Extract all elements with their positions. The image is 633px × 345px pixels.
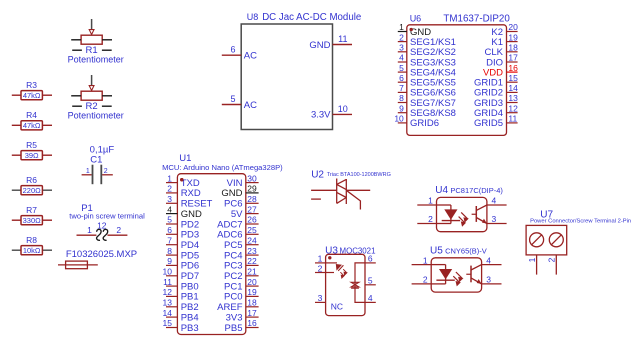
- optocoupler U5 CNY65(B)-V: [412, 245, 502, 292]
- svg-text:5V: 5V: [231, 209, 243, 220]
- svg-text:6: 6: [368, 254, 373, 264]
- svg-text:9: 9: [399, 103, 404, 113]
- resistor R4: [12, 110, 52, 130]
- svg-text:RXD: RXD: [181, 188, 201, 199]
- U1 pin 11 PB0: [166, 285, 177, 287]
- P1 screw hook 2: [103, 229, 108, 240]
- svg-text:R5: R5: [26, 140, 37, 150]
- U2 MT1 lead wire: [346, 189, 370, 191]
- U3 pin 6: [365, 262, 376, 264]
- U3 pin 3: [315, 301, 326, 303]
- svg-text:26: 26: [247, 215, 257, 225]
- U1 pin 9 PD6: [166, 264, 177, 266]
- svg-text:PC3: PC3: [224, 261, 242, 272]
- svg-text:29: 29: [247, 184, 257, 194]
- U6 pin 20 K2: [507, 31, 518, 33]
- U6 pin 13 GRID3: [507, 102, 518, 104]
- svg-text:PD3: PD3: [181, 230, 199, 241]
- svg-text:AC: AC: [244, 51, 257, 62]
- svg-text:U6: U6: [410, 14, 422, 24]
- svg-text:23: 23: [247, 246, 257, 256]
- svg-text:GND: GND: [309, 40, 330, 51]
- U6 pin 9 SEG8/KS8: [398, 112, 407, 114]
- U8 pin 5 AC: [222, 104, 241, 106]
- svg-text:1: 1: [86, 168, 90, 175]
- svg-text:ADC6: ADC6: [217, 230, 242, 241]
- U6 pin 5 SEG4/KS4: [398, 71, 407, 73]
- svg-text:R8: R8: [26, 235, 37, 245]
- U1 pin 21 PC2: [246, 275, 259, 277]
- svg-text:2: 2: [547, 257, 557, 262]
- svg-text:MCU: Arduino Nano (ATmega328P): MCU: Arduino Nano (ATmega328P): [162, 163, 283, 172]
- svg-text:28: 28: [247, 194, 257, 204]
- U2 upper triangle: [337, 179, 347, 184]
- svg-text:220Ω: 220Ω: [23, 186, 42, 195]
- svg-text:14: 14: [508, 83, 518, 93]
- U1 pin 23 PC4: [246, 254, 259, 256]
- U1 pin 27 5V: [246, 213, 259, 215]
- U1 pin 1 dot overlay: [180, 178, 183, 181]
- svg-text:3: 3: [167, 194, 172, 204]
- U1 pin 24 PC5: [246, 244, 259, 246]
- U1 pin 26 ADC7: [246, 223, 259, 225]
- U1 pin 15 PB3: [166, 327, 177, 329]
- svg-text:11: 11: [163, 277, 172, 287]
- svg-text:Triac BTA100-1200BWRG: Triac BTA100-1200BWRG: [327, 172, 391, 178]
- svg-text:20: 20: [247, 277, 257, 287]
- resistor R6: [12, 175, 52, 195]
- U1 pin 10 PD7: [166, 275, 177, 277]
- svg-text:10: 10: [163, 267, 173, 277]
- U4 internal LED: [437, 204, 451, 206]
- svg-text:12: 12: [508, 103, 518, 113]
- U1 pin 7 PD4: [166, 244, 177, 246]
- svg-text:15: 15: [508, 73, 518, 83]
- U1 pin 25 ADC6: [246, 233, 259, 235]
- svg-text:DC Jac AC-DC Module: DC Jac AC-DC Module: [262, 12, 361, 23]
- U6 pin 16 VDD: [507, 71, 518, 73]
- svg-text:330Ω: 330Ω: [23, 216, 42, 225]
- potentiometer R2: [68, 75, 124, 121]
- svg-text:8: 8: [167, 246, 172, 256]
- U6 pin 6 SEG5/KS5: [398, 81, 407, 83]
- svg-text:2: 2: [104, 168, 108, 175]
- connector P1 two-pin screw terminal: [69, 203, 145, 240]
- svg-text:PD4: PD4: [181, 240, 199, 251]
- U8 pin 10 3.3V: [333, 113, 353, 115]
- svg-text:25: 25: [247, 225, 257, 235]
- U5 internal LED: [431, 264, 445, 266]
- svg-text:GND: GND: [181, 209, 202, 220]
- svg-text:16: 16: [247, 318, 257, 328]
- U1 pin 30 VIN: [246, 182, 259, 184]
- svg-text:1: 1: [318, 254, 323, 264]
- U3 pin 5: [365, 284, 376, 286]
- svg-text:6: 6: [230, 45, 235, 55]
- U1 pin 18 AREF: [246, 306, 259, 308]
- svg-text:47kΩ: 47kΩ: [23, 91, 41, 100]
- U2 left bar: [336, 179, 338, 204]
- U5 pin 4: [482, 264, 502, 266]
- resistor R8: [12, 235, 52, 255]
- svg-text:5: 5: [399, 63, 404, 73]
- svg-text:U8: U8: [247, 12, 259, 22]
- resistor R5: [12, 140, 52, 160]
- U2 stub wire: [311, 198, 321, 200]
- svg-text:4: 4: [486, 255, 491, 265]
- svg-text:Potentiometer: Potentiometer: [68, 111, 124, 121]
- U6 pin 7 SEG6/KS6: [398, 91, 407, 93]
- U1 pin 3 RESET: [166, 202, 177, 204]
- svg-text:13: 13: [508, 93, 518, 103]
- P1 right wire: [108, 234, 128, 236]
- U6 pin 12 GRID4: [507, 112, 518, 114]
- svg-text:8: 8: [399, 93, 404, 103]
- svg-text:3: 3: [399, 43, 404, 53]
- U6 pin 14 GRID2: [507, 91, 518, 93]
- svg-text:18: 18: [247, 298, 257, 308]
- svg-text:PB1: PB1: [181, 292, 199, 303]
- svg-text:11: 11: [338, 34, 347, 44]
- svg-text:TM1637-DIP20: TM1637-DIP20: [443, 14, 510, 25]
- svg-text:6: 6: [167, 225, 172, 235]
- U7 pin 2 lead: [555, 255, 557, 275]
- svg-text:18: 18: [508, 43, 518, 53]
- svg-text:GRID5: GRID5: [474, 118, 503, 129]
- U6 pin 10 GRID6: [398, 122, 407, 124]
- svg-text:15: 15: [163, 318, 173, 328]
- svg-text:PC817C(DIP-4): PC817C(DIP-4): [450, 186, 503, 195]
- U4 light arrows: [461, 212, 467, 221]
- U3 internal diac: [351, 282, 359, 287]
- U1 pin 28 PC6: [246, 202, 259, 204]
- svg-text:R3: R3: [26, 80, 37, 90]
- svg-text:4: 4: [492, 196, 497, 206]
- resistor R3: [12, 80, 52, 100]
- U1 pin 13 PB2: [166, 306, 177, 308]
- U4 pin 4: [487, 204, 507, 206]
- svg-text:3: 3: [492, 214, 497, 224]
- U6 pin 11 GRID5: [507, 122, 518, 124]
- svg-text:U2: U2: [311, 169, 324, 180]
- U1 pin 5 PD2: [166, 223, 177, 225]
- U1 pin 4 GND: [166, 213, 177, 215]
- svg-text:7: 7: [167, 235, 172, 245]
- fuse F1 F10326025.MXP: [58, 249, 137, 269]
- svg-text:21: 21: [247, 267, 257, 277]
- svg-text:two-pin screw terminal: two-pin screw terminal: [69, 211, 145, 220]
- U6 pin 4 SEG3/KS3: [398, 61, 407, 63]
- svg-text:9: 9: [167, 256, 172, 266]
- triac U2 BTA100-1200BWRG: [311, 169, 391, 209]
- C1 plates: [92, 165, 94, 185]
- svg-text:1: 1: [87, 225, 92, 235]
- resistor R7: [12, 205, 52, 225]
- svg-text:16: 16: [508, 63, 518, 73]
- svg-text:10: 10: [338, 104, 348, 114]
- U4 phototransistor: [475, 206, 477, 222]
- U7 screw 2: [549, 233, 563, 247]
- U6 pin 1 dot: [410, 28, 413, 31]
- svg-text:R4: R4: [26, 110, 37, 120]
- svg-text:27: 27: [247, 204, 257, 214]
- svg-text:39Ω: 39Ω: [25, 151, 39, 160]
- U5 light arrows: [456, 272, 462, 281]
- U1 pin 22 PC3: [246, 264, 259, 266]
- svg-text:1: 1: [527, 257, 537, 262]
- svg-text:4: 4: [167, 204, 172, 214]
- U5 phototransistor: [470, 266, 472, 283]
- svg-text:4: 4: [399, 53, 404, 63]
- U8 pin 6 AC: [222, 54, 241, 56]
- U4 pin 3: [487, 223, 507, 225]
- U6 pin 3 SEG2/KS2: [398, 51, 407, 53]
- svg-text:20: 20: [508, 22, 518, 32]
- U7 pin 1 lead: [536, 255, 538, 275]
- svg-text:3: 3: [486, 275, 491, 285]
- U6 pin 15 GRID1: [507, 81, 518, 83]
- U7 screw 1: [530, 233, 544, 247]
- IC U1 MCU Arduino Nano (ATmega328P): [162, 153, 283, 335]
- svg-text:7: 7: [399, 83, 404, 93]
- U8 pin 11 GND: [333, 44, 353, 46]
- svg-text:R6: R6: [26, 175, 37, 185]
- U1 pin 29 GND: [246, 192, 259, 194]
- U6 pin 19 K1: [507, 41, 518, 43]
- U5 pin 1: [412, 264, 432, 266]
- U3 pin 4: [365, 301, 376, 303]
- fuse lead wire: [58, 264, 98, 266]
- U1 pin 1 dot: [180, 178, 183, 181]
- svg-text:F10326025.MXP: F10326025.MXP: [66, 249, 137, 260]
- svg-text:17: 17: [508, 53, 518, 63]
- svg-text:NC: NC: [331, 302, 343, 312]
- U2 lower triangle: [337, 192, 347, 197]
- U6 pin 1 dot overlay: [410, 28, 413, 31]
- svg-text:22: 22: [247, 256, 257, 266]
- svg-text:Power Connector/Screw Terminal: Power Connector/Screw Terminal 2-Pin: [530, 219, 631, 225]
- P1 left wire: [77, 234, 97, 236]
- svg-text:2: 2: [423, 275, 428, 285]
- svg-text:19: 19: [247, 287, 257, 297]
- U3 internal LED: [326, 262, 337, 264]
- U2 gate lead: [346, 190, 360, 209]
- U4 pin 2: [417, 223, 436, 225]
- U1 pin 19 PC0: [246, 295, 259, 297]
- svg-text:1: 1: [423, 255, 428, 265]
- U3 LED arrows: [343, 269, 347, 275]
- U1 pin 16 PB5: [246, 327, 259, 329]
- U3 internal triac bracket: [355, 263, 365, 303]
- svg-text:1: 1: [399, 22, 404, 32]
- U1 pin 20 PC1: [246, 285, 259, 287]
- U3 pin 1: [315, 262, 326, 264]
- svg-text:U5: U5: [430, 245, 443, 256]
- svg-text:5: 5: [368, 276, 373, 286]
- U6 pin 1 GND: [398, 31, 407, 33]
- U1 pin 17 3V3: [246, 316, 259, 318]
- svg-text:3.3V: 3.3V: [311, 110, 331, 121]
- svg-text:PC0: PC0: [224, 292, 242, 303]
- U1 pin 12 PB1: [166, 295, 177, 297]
- svg-text:14: 14: [163, 308, 173, 318]
- U6 pin 18 CLK: [507, 51, 518, 53]
- svg-text:3V3: 3V3: [226, 312, 243, 323]
- P1 screw hook 1: [97, 229, 102, 240]
- U6 pin 2 SEG1/KS1: [398, 41, 407, 43]
- svg-text:17: 17: [247, 308, 257, 318]
- U2 MT2 lead wire: [311, 189, 337, 191]
- svg-text:30: 30: [247, 173, 257, 183]
- U5 pin 2: [412, 283, 432, 285]
- C1 left lead wire: [82, 174, 92, 176]
- svg-text:2: 2: [428, 214, 433, 224]
- svg-text:5: 5: [230, 94, 235, 104]
- optocoupler U3 MOC3021: [315, 246, 376, 316]
- U6 pin 17 DIO: [507, 61, 518, 63]
- svg-text:10: 10: [394, 114, 404, 124]
- svg-text:PB4: PB4: [181, 312, 199, 323]
- svg-text:PC5: PC5: [224, 240, 242, 251]
- svg-text:4: 4: [368, 293, 373, 303]
- C1 right lead wire: [102, 174, 113, 176]
- svg-text:1: 1: [428, 196, 433, 206]
- svg-text:13: 13: [163, 298, 173, 308]
- svg-text:11: 11: [508, 114, 517, 124]
- svg-text:PB3: PB3: [181, 323, 199, 334]
- svg-text:2: 2: [399, 32, 404, 42]
- svg-text:R7: R7: [26, 205, 37, 215]
- svg-text:2: 2: [116, 225, 121, 235]
- U2 right bar: [345, 179, 347, 204]
- svg-text:PB5: PB5: [225, 323, 243, 334]
- U6 pin 8 SEG7/KS7: [398, 102, 407, 104]
- U3 pin 1 dot: [328, 256, 331, 259]
- U1 pin 6 PD3: [166, 233, 177, 235]
- U1 pin 8 PD5: [166, 254, 177, 256]
- svg-text:19: 19: [508, 32, 518, 42]
- svg-text:2: 2: [167, 184, 172, 194]
- capacitor C1: [82, 144, 115, 184]
- svg-text:3: 3: [318, 293, 323, 303]
- svg-text:24: 24: [247, 235, 257, 245]
- svg-text:1: 1: [167, 173, 172, 183]
- U1 pin 14 PB4: [166, 316, 177, 318]
- svg-text:47kΩ: 47kΩ: [23, 121, 41, 130]
- U4 pin 1: [417, 204, 436, 206]
- U1 pin 2 RXD: [166, 192, 177, 194]
- svg-text:CNY65(B)-V: CNY65(B)-V: [445, 246, 487, 255]
- potentiometer R1: [68, 19, 124, 65]
- svg-text:AC: AC: [244, 100, 257, 111]
- connector U7 Power Connector/Screw Terminal 2-Pin: [526, 210, 631, 275]
- U5 pin 3: [482, 283, 502, 285]
- svg-text:Potentiometer: Potentiometer: [68, 55, 124, 65]
- svg-text:C1: C1: [90, 154, 102, 165]
- svg-text:5: 5: [167, 215, 172, 225]
- svg-text:6: 6: [399, 73, 404, 83]
- svg-text:U4: U4: [435, 185, 448, 196]
- optocoupler U4 PC817C(DIP-4): [417, 185, 506, 232]
- svg-text:GRID6: GRID6: [410, 118, 439, 129]
- U3 pin 2: [315, 272, 326, 274]
- module U8 DC Jac AC-DC Module: [222, 12, 361, 129]
- svg-text:10kΩ: 10kΩ: [23, 246, 41, 255]
- IC U6 TM1637-DIP20: [394, 14, 518, 136]
- svg-text:12: 12: [163, 287, 173, 297]
- svg-text:PD6: PD6: [181, 261, 199, 272]
- svg-text:2: 2: [318, 263, 323, 273]
- U1 pin 1 TXD: [166, 182, 177, 184]
- svg-text:GND: GND: [221, 188, 242, 199]
